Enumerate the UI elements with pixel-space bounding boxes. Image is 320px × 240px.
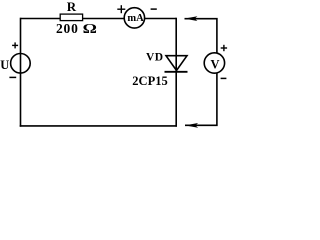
- polarity + of milliammeter: [117, 5, 125, 13]
- wire: right vertical of main loop: [175, 18, 177, 127]
- svg-text:U: U: [0, 58, 9, 72]
- svg-text:VD: VD: [146, 52, 164, 64]
- diode VD (triangle): [166, 56, 187, 71]
- polarity − of milliammeter: [151, 8, 157, 10]
- wire: bottom horizontal of main loop: [20, 125, 177, 127]
- svg-text:mA: mA: [127, 13, 144, 24]
- source U (circle): [11, 54, 31, 74]
- polarity + of source U: [12, 42, 18, 48]
- wire: left vertical of main loop: [20, 18, 22, 127]
- svg-text:200: 200: [56, 21, 79, 36]
- voltmeter V (circle): [204, 53, 224, 73]
- diode VD cathode bar: [165, 71, 188, 73]
- probe arrowhead (top, pointing left): [184, 16, 197, 21]
- polarity − of source U: [9, 76, 16, 78]
- wire: voltmeter branch (top lead, vertical, bottom lead): [185, 19, 217, 126]
- svg-text:Ω: Ω: [83, 22, 97, 37]
- svg-text:V: V: [210, 58, 219, 72]
- polarity + of voltmeter: [221, 45, 227, 51]
- resistor R (box): [60, 14, 82, 21]
- polarity − of voltmeter: [221, 77, 227, 79]
- probe arrowhead (bottom, pointing left): [185, 123, 198, 128]
- svg-text:2CP15: 2CP15: [132, 74, 167, 88]
- svg-text:R: R: [67, 0, 77, 14]
- milliammeter mA (circle): [124, 8, 144, 28]
- wire: top horizontal of main loop: [21, 18, 177, 20]
